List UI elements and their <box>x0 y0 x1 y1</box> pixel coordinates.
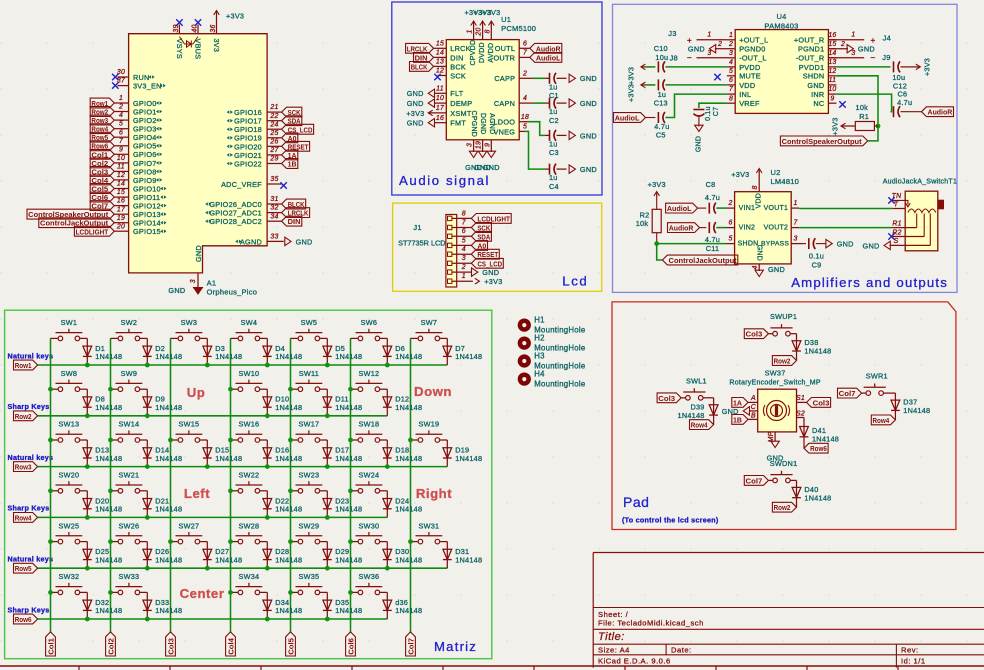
pcm5100 U1 body <box>446 40 519 140</box>
junction D34 to Row6 <box>265 617 270 622</box>
diode D8 1N4148 <box>86 389 88 416</box>
U4 pin 2 PGND0 <box>727 48 735 50</box>
svg-text:9: 9 <box>119 146 123 153</box>
pin 39 VSYS (no-connect) <box>178 25 180 34</box>
U1 pin 2 CAPP <box>519 77 533 79</box>
svg-text:R1: R1 <box>859 112 869 121</box>
diode D29 1N4148 <box>326 542 328 569</box>
junction Col1 at SW20 <box>48 488 53 493</box>
power +3V3 left lower <box>641 84 645 86</box>
diode D7 1N4148 <box>446 338 448 365</box>
svg-text:1N4148: 1N4148 <box>275 403 302 412</box>
junction Col2 at SW26 <box>108 539 113 544</box>
power GND at C3 <box>569 131 575 139</box>
svg-text:31: 31 <box>270 196 278 203</box>
J1 pin 8 with label LCDLIGHT <box>448 216 452 220</box>
jack contact arcs <box>908 209 936 213</box>
svg-text:1N4148: 1N4148 <box>215 352 242 361</box>
diode D16 1N4148 <box>266 440 268 467</box>
svg-text:1N4148: 1N4148 <box>395 606 422 615</box>
svg-text:U1: U1 <box>501 15 511 24</box>
svg-text:5: 5 <box>523 124 527 131</box>
diode D4 1N4148 <box>266 338 268 365</box>
pin 9 GPIO6 with label Col1 <box>114 153 128 155</box>
switch SW9 <box>111 388 119 390</box>
junction Col4 at SW34 <box>228 590 233 595</box>
diode D23 1N4148 <box>326 491 328 518</box>
svg-text:−: − <box>687 52 692 62</box>
svg-text:T: T <box>894 201 899 208</box>
switch SW31 <box>411 541 419 543</box>
svg-text:37: 37 <box>117 78 126 85</box>
junction D4 to Row1 <box>265 363 270 368</box>
svg-text:SW15: SW15 <box>178 420 199 429</box>
svg-text:1N4148: 1N4148 <box>335 606 362 615</box>
svg-text:J3: J3 <box>668 29 676 38</box>
svg-text:8: 8 <box>462 210 466 217</box>
rotary encoder SW37 RotaryEncoder_Switch_MP body <box>758 389 797 432</box>
svg-text:Sheet: /: Sheet: / <box>598 610 629 619</box>
svg-text:1N4148: 1N4148 <box>395 555 422 564</box>
svg-text:27: 27 <box>269 147 279 154</box>
svg-text:SW37: SW37 <box>765 368 786 377</box>
wire U4 SHDN down <box>836 76 878 141</box>
capacitor C4 <box>545 168 550 170</box>
diode D38 1N4148 <box>792 341 801 351</box>
svg-text:1N4148: 1N4148 <box>275 352 302 361</box>
svg-text:H3: H3 <box>534 351 544 360</box>
svg-text:S: S <box>894 238 899 245</box>
svg-text:C7: C7 <box>713 107 720 116</box>
pin 7 GPIO5 with label Row6 <box>114 145 128 147</box>
svg-text:CS_LCD: CS_LCD <box>477 259 502 268</box>
svg-text:Pad: Pad <box>623 494 649 510</box>
svg-text:FLT: FLT <box>450 89 463 98</box>
J1 pin 6 with label SDA <box>448 234 452 238</box>
junction D26 to Row5 <box>145 566 150 571</box>
svg-text:C1: C1 <box>549 91 559 100</box>
diode D26 1N4148 <box>146 542 148 569</box>
pin 29 GPIO22 with label 1B <box>267 163 282 165</box>
svg-text:RotaryEncoder_Switch_MP: RotaryEncoder_Switch_MP <box>729 380 820 387</box>
svg-text:NC: NC <box>813 99 824 108</box>
svg-text:Natural keys: Natural keys <box>8 453 54 462</box>
svg-text:Col4: Col4 <box>227 637 236 655</box>
jack pin R2 no-connect <box>888 233 894 239</box>
svg-text:2: 2 <box>840 41 845 48</box>
label Col3 at SWL1 <box>657 393 681 403</box>
switch SW7 <box>411 337 419 339</box>
switch SW15 <box>171 439 179 441</box>
J1 pin 4 with label RESET <box>448 252 452 256</box>
svg-text:GPIO22: GPIO22 <box>234 159 262 168</box>
junction Col6 at SW12 <box>348 387 353 392</box>
svg-text:OUTR: OUTR <box>494 53 516 62</box>
diode D40 1N4148 <box>792 487 801 497</box>
capacitor C3 <box>545 134 550 136</box>
svg-text:10: 10 <box>117 155 125 162</box>
svg-text:1: 1 <box>462 273 466 280</box>
svg-text:LRCK: LRCK <box>450 44 470 53</box>
capacitor C9 0.1u <box>803 243 806 245</box>
U1 pin 5 VNEG <box>519 130 524 132</box>
svg-text:SCK: SCK <box>450 71 466 80</box>
U1 pin 17 XSMT to +3V3 <box>428 112 446 114</box>
switch SW2 <box>111 337 119 339</box>
svg-text:+: + <box>687 35 692 45</box>
label Col7 <box>406 632 416 656</box>
junction Col5 at SW11 <box>288 387 293 392</box>
svg-text:Col7: Col7 <box>839 389 856 398</box>
U1 pin 16 FMT to GND <box>434 122 446 124</box>
capacitor C12 10u <box>893 61 895 72</box>
section box Amplifiers and outputs <box>613 4 958 292</box>
junction D33 to Row6 <box>145 617 150 622</box>
svg-text:SW31: SW31 <box>418 521 439 530</box>
svg-text:1: 1 <box>467 29 474 33</box>
svg-text:VOUT1: VOUT1 <box>764 205 789 212</box>
pin 2 GPIO1 with label Row2 <box>114 111 128 113</box>
label Row5 <box>14 563 38 573</box>
svg-text:+3V3: +3V3 <box>731 170 749 179</box>
svg-text:4: 4 <box>119 112 123 119</box>
svg-text:SW36: SW36 <box>358 572 379 581</box>
svg-text:Row1: Row1 <box>15 361 32 370</box>
power +3V3 right <box>901 66 914 68</box>
svg-text:9: 9 <box>484 143 491 147</box>
svg-text:12: 12 <box>117 172 125 179</box>
svg-text:BYPASS: BYPASS <box>761 241 789 248</box>
svg-text:SW16: SW16 <box>238 420 259 429</box>
diode D6 1N4148 <box>386 338 388 365</box>
U1 pin 4 CAPN <box>519 102 533 104</box>
capacitor C11 4.7u <box>708 222 710 233</box>
svg-text:VOUT2: VOUT2 <box>764 225 789 232</box>
svg-text:Col3: Col3 <box>813 398 830 407</box>
junction Col4 at SW10 <box>228 387 233 392</box>
svg-text:U4: U4 <box>776 12 786 21</box>
label Row4 at SWL1 <box>690 420 714 430</box>
diode D19 1N4148 <box>446 440 448 467</box>
svg-text:CPVDD: CPVDD <box>470 40 477 66</box>
U4 pin 6 VDD <box>727 84 735 86</box>
junction D10 to Row2 <box>265 413 270 418</box>
svg-text:25: 25 <box>269 130 278 137</box>
svg-text:PVDD1: PVDD1 <box>799 63 825 72</box>
diode D14 1N4148 <box>146 440 148 467</box>
svg-text:SW32: SW32 <box>58 572 79 581</box>
svg-text:DEMP: DEMP <box>450 99 472 108</box>
wire column Col7 <box>410 338 412 632</box>
wire column Col6 <box>350 338 352 632</box>
pin 32 GPIO27_ADC1 with label LRCLK <box>267 212 282 214</box>
pin 6 GPIO4 with label Row5 <box>114 136 128 138</box>
U4 pin 7 INL <box>727 93 735 95</box>
U2 pin 3 BYPASS <box>791 243 803 245</box>
wire R2 to SHDN <box>656 233 658 244</box>
U1 pin 20 DVDD to +3V3 <box>482 22 484 40</box>
junction Col2 at SW33 <box>108 590 113 595</box>
svg-text:1N4148: 1N4148 <box>395 454 422 463</box>
svg-text:Size: A4: Size: A4 <box>598 646 630 655</box>
wire AudioL to C8 <box>698 207 707 209</box>
pin 33 AGND to GND <box>267 240 284 242</box>
jack pin T wire from VOUT1 <box>799 208 892 210</box>
svg-text:INR: INR <box>811 90 824 99</box>
encoder pin A with label 1A <box>748 401 758 403</box>
mcu U-A1 Orpheus_Pico body <box>129 34 268 273</box>
label Row6 <box>14 614 38 624</box>
diode D21 1N4148 <box>146 491 148 518</box>
svg-text:1B: 1B <box>288 160 297 169</box>
svg-text:GND: GND <box>695 136 702 152</box>
label Row1 <box>14 360 38 370</box>
junction D9 to Row2 <box>145 413 150 418</box>
svg-text:GND: GND <box>580 99 597 108</box>
svg-text:SW29: SW29 <box>298 521 319 530</box>
svg-text:AudioR: AudioR <box>669 224 694 233</box>
svg-text:Sharp Keys: Sharp Keys <box>8 504 50 513</box>
svg-text:GND: GND <box>407 119 424 128</box>
internal diode VSYS-VBUS <box>179 37 198 48</box>
svg-text:Left: Left <box>184 486 210 501</box>
svg-text:1N4148: 1N4148 <box>804 493 831 502</box>
svg-text:1N4148: 1N4148 <box>395 352 422 361</box>
svg-text:SW13: SW13 <box>58 420 79 429</box>
svg-text:10: 10 <box>828 86 836 93</box>
wire column Col4 <box>230 338 232 632</box>
U2 pin 6 VIN2 <box>727 227 735 229</box>
svg-text:1: 1 <box>851 32 855 39</box>
svg-text:1N4148: 1N4148 <box>455 555 482 564</box>
junction at R1 <box>876 124 881 129</box>
label Col6 <box>346 632 356 656</box>
junction D1 to Row1 <box>85 363 90 368</box>
label Row4 at SWR1 <box>871 415 895 425</box>
svg-text:10: 10 <box>436 95 444 102</box>
svg-text:29: 29 <box>269 156 278 163</box>
svg-text:MountingHole: MountingHole <box>534 380 585 389</box>
U2 pin 4 GND bottom <box>758 264 760 271</box>
label Row6 at encoder <box>804 443 828 453</box>
svg-text:Row3: Row3 <box>15 463 32 472</box>
svg-text:1N4148: 1N4148 <box>275 555 302 564</box>
svg-text:1N4148: 1N4148 <box>903 406 930 415</box>
svg-text:SW11: SW11 <box>299 369 319 378</box>
svg-text:14: 14 <box>828 50 836 57</box>
connector J3 pin 3 - <box>697 57 727 59</box>
label Col7 at SWDN1 <box>744 476 768 486</box>
U1 pin 1 CPVDD to +3V3 <box>473 22 475 40</box>
svg-text:GND: GND <box>580 74 597 83</box>
switch SW23 <box>291 490 299 492</box>
pam8403 U4 body <box>735 30 828 114</box>
junction D27 to Row5 <box>205 566 210 571</box>
svg-text:4: 4 <box>752 265 759 269</box>
svg-text:1N4148: 1N4148 <box>95 403 122 412</box>
label ControlJackOutput <box>662 255 737 265</box>
jack pin S to GND <box>890 244 931 246</box>
svg-text:15: 15 <box>117 189 125 196</box>
U1 pin 19 DGND to GND <box>482 140 484 152</box>
J1 pin 5 with label A0 <box>448 243 452 247</box>
svg-text:17: 17 <box>117 206 126 213</box>
junction D22 to Row4 <box>265 515 270 520</box>
svg-text:GND: GND <box>580 165 597 174</box>
svg-text:6: 6 <box>462 228 466 235</box>
svg-text:1N4148: 1N4148 <box>395 403 422 412</box>
junction Col5 at SW29 <box>288 539 293 544</box>
junction D14 to Row3 <box>145 464 150 469</box>
wire +3V3 to C13 <box>645 84 656 86</box>
junction D29 to Row5 <box>325 566 330 571</box>
svg-text:12: 12 <box>828 68 836 75</box>
junction Col6 at SW24 <box>348 488 353 493</box>
svg-text:1N4148: 1N4148 <box>455 352 482 361</box>
label Col4 <box>226 632 236 656</box>
svg-text:1N4148: 1N4148 <box>95 505 122 514</box>
lm4810 U2 body <box>735 192 792 264</box>
svg-text:Audio signal: Audio signal <box>399 173 490 188</box>
switch SW26 <box>111 541 119 543</box>
pin 26 GPIO20 with label RESET <box>267 145 282 147</box>
svg-text:BLCK: BLCK <box>411 62 428 71</box>
svg-text:5: 5 <box>728 236 732 243</box>
diode D17 1N4148 <box>326 440 328 467</box>
svg-text:+3V3: +3V3 <box>648 180 666 189</box>
svg-text:AudioL: AudioL <box>667 204 692 213</box>
diode D20 1N4148 <box>86 491 88 518</box>
svg-text:1N4148: 1N4148 <box>155 454 182 463</box>
capacitor C1 <box>545 77 550 79</box>
svg-text:−: − <box>870 52 875 62</box>
svg-text:SW20: SW20 <box>58 471 79 480</box>
U4 pin 12 SHDN <box>828 75 836 77</box>
power GND right of mcu <box>285 237 291 245</box>
svg-text:Row5: Row5 <box>15 564 32 573</box>
svg-text:Orpheus_Pico: Orpheus_Pico <box>207 287 258 296</box>
svg-text:Col6: Col6 <box>347 638 356 655</box>
svg-text:Down: Down <box>414 384 452 399</box>
junction D32 to Row6 <box>85 617 90 622</box>
svg-text:2: 2 <box>522 70 527 77</box>
U1 pin 14 DIN with label DIN <box>434 56 447 58</box>
label ControlSpeakerOutput <box>780 136 867 146</box>
U4 pin 5 MUTE <box>727 75 735 77</box>
pin 22 GPIO17 with label SDA <box>267 120 282 122</box>
svg-text:SW6: SW6 <box>361 318 378 327</box>
junction Col3 at SW15 <box>168 438 173 443</box>
svg-text:0.1u: 0.1u <box>809 252 824 261</box>
svg-text:SW22: SW22 <box>238 471 259 480</box>
wire to ControlJackOutput <box>657 244 663 260</box>
label Col3 at SWUP1 <box>744 329 768 339</box>
capacitor C13 1u <box>657 79 659 90</box>
svg-text:SW35: SW35 <box>298 572 319 581</box>
switch SW30 <box>351 541 359 543</box>
U1 pin 18 LDOO <box>519 121 528 123</box>
svg-text:VIN2: VIN2 <box>739 225 756 232</box>
svg-text:C13: C13 <box>654 99 668 108</box>
svg-text:Row2: Row2 <box>774 503 791 512</box>
U1 pin 13 BCK with label BLCK <box>434 65 447 67</box>
pin 16 GPIO12 with label Col7 <box>114 205 128 207</box>
encoder pin B with label 1B <box>748 418 758 420</box>
capacitor C8 4.7u <box>708 203 710 214</box>
wire U4 PVDD1 to C12 <box>836 66 890 68</box>
svg-text:XSMT: XSMT <box>450 109 472 118</box>
svg-text:16: 16 <box>117 198 125 205</box>
svg-text:+3V3: +3V3 <box>831 117 840 135</box>
U4 pin 3 -OUT_L <box>727 57 735 59</box>
wire AudioR to C11 <box>700 227 707 229</box>
svg-text:+3V3: +3V3 <box>484 277 502 286</box>
svg-text:GND: GND <box>194 245 203 262</box>
pin 14 GPIO10 with label Col5 <box>114 188 128 190</box>
switch SW1 <box>51 337 59 339</box>
U2 pin 8 VDD to +3V3 <box>758 187 760 192</box>
J1 pin 1 to +3V3 <box>448 279 452 283</box>
diode D11 1N4148 <box>326 389 328 416</box>
wire LDOO to C3 <box>528 122 545 136</box>
pin 27 GPIO21 with label 1A <box>267 154 282 156</box>
wire row Row2 <box>38 415 388 417</box>
svg-text:J8: J8 <box>669 53 677 62</box>
pin 21 GPIO16 with label SCK <box>267 111 282 113</box>
audio jack AudioJackA_SwitchT1 body <box>905 191 938 251</box>
label Row2 at SWDN1 <box>772 502 796 512</box>
switch SW32 <box>51 591 59 593</box>
label AudioR at U2 <box>668 223 700 233</box>
svg-text:Col7: Col7 <box>407 638 416 655</box>
junction Col4 at SW28 <box>228 539 233 544</box>
svg-text:Row6: Row6 <box>810 444 827 453</box>
U1 pin 10 DEMP to GND <box>434 102 446 104</box>
svg-text:1N4148: 1N4148 <box>804 347 831 356</box>
switch SW4 <box>231 337 239 339</box>
svg-text:21: 21 <box>269 104 278 111</box>
svg-text:VDD: VDD <box>756 193 763 209</box>
pin 3 GND bottom of mcu <box>197 273 199 288</box>
junction D13 to Row3 <box>85 464 90 469</box>
svg-text:R2: R2 <box>892 229 901 236</box>
svg-text:PGND0: PGND0 <box>739 45 765 54</box>
svg-text:26: 26 <box>269 138 278 145</box>
svg-text:3: 3 <box>793 236 797 243</box>
svg-text:8: 8 <box>752 185 759 189</box>
svg-text:SHDN: SHDN <box>803 72 825 81</box>
U4 pin 1 +OUT_L <box>727 39 735 41</box>
label Col1 <box>46 632 56 656</box>
U1 pin 3 CPGND to GND <box>473 140 475 152</box>
svg-text:Row4: Row4 <box>873 416 891 425</box>
svg-text:Up: Up <box>187 385 206 400</box>
power +3V3 at J1 <box>478 280 479 282</box>
sheet border bottom <box>0 665 984 667</box>
svg-text:VIN1: VIN1 <box>739 205 756 212</box>
switch SW34 <box>231 591 239 593</box>
svg-text:H1: H1 <box>534 315 544 324</box>
wire C11 to VIN2 <box>716 227 726 229</box>
svg-text:BCK: BCK <box>450 62 466 71</box>
svg-text:H4: H4 <box>534 369 545 378</box>
diode D10 1N4148 <box>266 389 268 416</box>
junction Col6 at SW36 <box>348 590 353 595</box>
svg-text:1N4148: 1N4148 <box>275 505 302 514</box>
U2 pin 2 VIN1 <box>727 207 735 209</box>
wire CAPP to C1 <box>533 77 545 79</box>
diode D24 1N4148 <box>386 491 388 518</box>
